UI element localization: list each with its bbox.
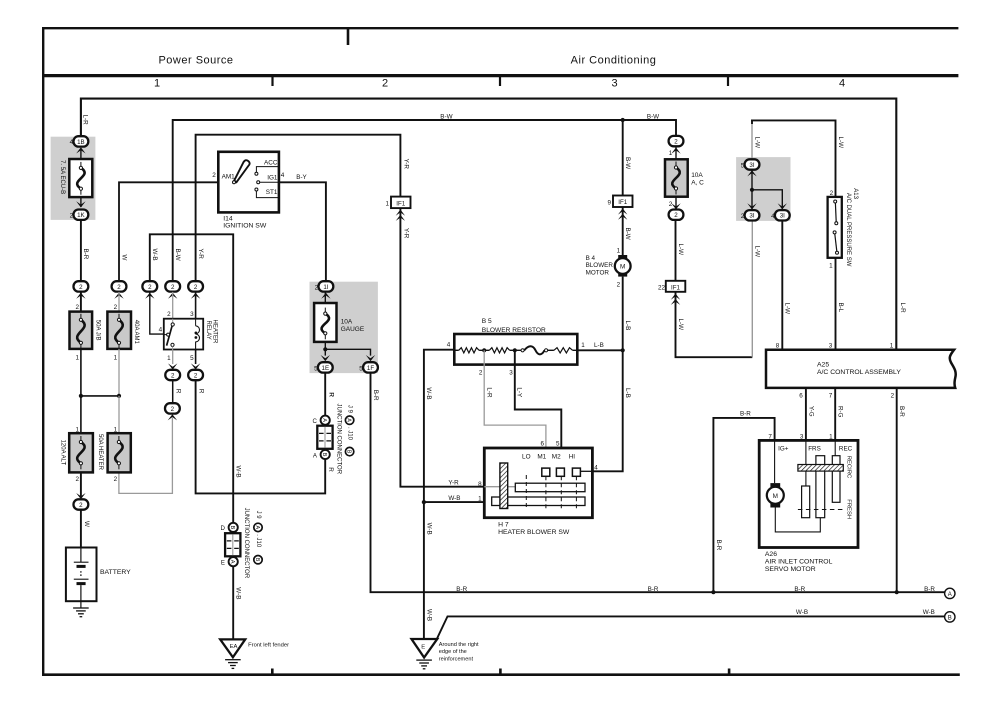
svg-text:5: 5 bbox=[741, 162, 745, 169]
connector 1B pin 4 bbox=[70, 136, 89, 146]
svg-text:2: 2 bbox=[194, 284, 198, 291]
svg-text:A: A bbox=[321, 418, 327, 422]
junction connector J9/J10 (D-E) bbox=[220, 523, 240, 567]
svg-text:2: 2 bbox=[171, 372, 175, 379]
connector 2 (Y-R) bbox=[188, 281, 203, 299]
fuse 50A J/B bbox=[70, 312, 101, 349]
svg-text:R: R bbox=[328, 392, 335, 397]
A26 air inlet control servo motor box bbox=[759, 440, 858, 547]
svg-text:3I: 3I bbox=[780, 213, 785, 220]
column number 4 bbox=[839, 78, 845, 90]
wire junction to fuse 120A ALT bbox=[75, 396, 80, 434]
label B-R bottom bus 2 bbox=[648, 586, 659, 593]
wire L-R from connector 1B across top to A25 pin 1 bbox=[81, 99, 906, 350]
svg-text:L-R: L-R bbox=[82, 115, 89, 126]
svg-text:22: 22 bbox=[658, 284, 666, 291]
wire W to battery bbox=[81, 510, 90, 548]
wire to fuse 50A J/B bbox=[75, 292, 80, 312]
heater blower switch labels LO M1 M2 HI bbox=[522, 454, 575, 461]
svg-text:1E: 1E bbox=[322, 365, 330, 372]
battery ground bbox=[73, 608, 89, 617]
label B5 BLOWER RESISTOR bbox=[482, 318, 546, 334]
A25 bottom pin labels bbox=[799, 392, 894, 399]
svg-text:2: 2 bbox=[674, 139, 678, 146]
battery bbox=[66, 548, 131, 609]
svg-text:4: 4 bbox=[70, 139, 74, 146]
wire R between connectors bbox=[173, 380, 182, 403]
wire L-W to connector IF1 pin 22 bbox=[676, 220, 685, 281]
blower motor B4 bbox=[586, 255, 631, 277]
svg-text:B-R: B-R bbox=[794, 586, 805, 593]
svg-text:2: 2 bbox=[171, 284, 175, 291]
wire W from ignition AM1 to connector 2 bbox=[119, 182, 218, 281]
pressure switch A13 contacts bbox=[833, 200, 838, 254]
wire fuse 50A J/B to junction bbox=[75, 349, 80, 396]
section title Air Conditioning bbox=[571, 55, 657, 67]
svg-text:B: B bbox=[229, 526, 235, 530]
ground E around reinforcement bbox=[412, 639, 480, 669]
wire R 1E to junction connector bbox=[325, 373, 334, 416]
svg-text:2: 2 bbox=[479, 370, 483, 377]
svg-text:3I: 3I bbox=[749, 162, 754, 169]
svg-text:3: 3 bbox=[509, 370, 513, 377]
wire B-R 1F to bottom bus bbox=[371, 373, 945, 592]
A26 dashed line bbox=[798, 509, 843, 511]
svg-text:2: 2 bbox=[79, 284, 83, 291]
svg-text:B-R: B-R bbox=[82, 249, 89, 260]
svg-text:IF1: IF1 bbox=[396, 200, 405, 207]
section title Power Source bbox=[158, 55, 233, 67]
label B-R bottom bus 4 bbox=[924, 586, 935, 593]
svg-text:A: A bbox=[313, 452, 318, 459]
wire Y-G A25 to A26 pin 3 bbox=[800, 388, 815, 441]
svg-text:IGNITION SW: IGNITION SW bbox=[223, 223, 267, 230]
svg-text:L-B: L-B bbox=[624, 321, 631, 331]
label B-R bottom bus 3 bbox=[794, 586, 805, 593]
wire L-W top branch bbox=[751, 120, 844, 197]
svg-text:E: E bbox=[421, 645, 425, 651]
wire connector 2 to fuse 40A AM1 bbox=[114, 292, 119, 312]
svg-text:A: A bbox=[254, 526, 260, 530]
label B-R bottom bus 1 bbox=[456, 586, 467, 593]
wire heater relay pin 5 to connector 2 bbox=[190, 350, 200, 370]
svg-text:5: 5 bbox=[190, 355, 194, 362]
svg-text:edge of the: edge of the bbox=[439, 649, 467, 655]
ignition terminal ST1 bbox=[255, 188, 279, 198]
connector 2 (R lower) bbox=[165, 403, 180, 420]
wire W-B bottom bus to output B bbox=[437, 609, 945, 638]
connector 1K pin 2 bbox=[70, 210, 89, 220]
wire W-B branch into heater blower switch pin 1 bbox=[424, 495, 492, 502]
A26 FRS slider bbox=[802, 486, 810, 518]
wire W-B to ground E bbox=[426, 609, 433, 621]
svg-text:B-Y: B-Y bbox=[296, 174, 307, 181]
svg-text:B-W: B-W bbox=[647, 114, 659, 121]
svg-text:Y-G: Y-G bbox=[807, 406, 814, 417]
ignition terminal AM1 pin 2 bbox=[212, 172, 235, 184]
label HEATER RELAY bbox=[205, 320, 218, 345]
svg-text:C: C bbox=[312, 418, 317, 425]
svg-text:2: 2 bbox=[194, 372, 198, 379]
arrow into 1K bbox=[76, 197, 85, 207]
svg-text:. J10: . J10 bbox=[255, 534, 261, 548]
A26 internal wires bbox=[775, 440, 836, 486]
wire W-B blower resistor pin 4 to ground E bbox=[422, 341, 455, 639]
svg-text:IG+: IG+ bbox=[778, 446, 789, 453]
svg-text:2: 2 bbox=[114, 476, 118, 483]
svg-text:JUNCTION CONNECTOR: JUNCTION CONNECTOR bbox=[335, 404, 341, 475]
svg-text:A: A bbox=[948, 592, 952, 598]
label 1 at A25 pin 1 bbox=[890, 342, 894, 349]
svg-text:4: 4 bbox=[594, 464, 598, 471]
svg-text:1I: 1I bbox=[323, 284, 328, 291]
svg-text:10A: 10A bbox=[341, 318, 353, 325]
svg-text:2: 2 bbox=[79, 502, 83, 509]
A26 middle slider bbox=[816, 456, 825, 518]
fuse 40A AM1 bbox=[107, 312, 139, 349]
gray backdrop 7.5A ECU-B bbox=[51, 137, 96, 220]
A26 REC slider bbox=[832, 456, 840, 503]
svg-text:6: 6 bbox=[799, 392, 803, 399]
junction bus between fuses bbox=[79, 394, 121, 398]
wire R to fuse 50A HEATER bbox=[119, 417, 172, 493]
svg-text:B-R: B-R bbox=[898, 406, 905, 417]
wire segment 1B to fuse bbox=[80, 150, 82, 159]
svg-text:50A HEATER: 50A HEATER bbox=[97, 434, 103, 471]
svg-text:HEATER BLOWER SW: HEATER BLOWER SW bbox=[498, 529, 570, 536]
heater blower switch dashed links bbox=[526, 475, 576, 509]
A26 servo motor M bbox=[767, 483, 784, 507]
wire Y-R IF1 to heater blower switch pin 8 bbox=[400, 208, 484, 488]
connector 2 (B-W) bbox=[165, 281, 180, 299]
svg-text:JUNCTION CONNECTOR: JUNCTION CONNECTOR bbox=[243, 508, 249, 579]
ground EA front left fender bbox=[220, 639, 289, 668]
A26 hatched bar bbox=[798, 465, 843, 472]
A26 terminal labels bbox=[778, 446, 853, 453]
connector 3I pin 5 bbox=[741, 159, 760, 176]
svg-text:5: 5 bbox=[314, 365, 318, 372]
heater blower switch bar 2 bbox=[492, 497, 585, 506]
connector 2 (relay pin5 R) bbox=[188, 370, 203, 380]
svg-text:IF1: IF1 bbox=[618, 199, 627, 206]
wire W-B connector 2 to junction connector J9/J10 bbox=[150, 234, 242, 522]
label A13 A/C DUAL PRESSURE SW bbox=[845, 188, 858, 266]
svg-text:2: 2 bbox=[75, 304, 79, 311]
label A26 AIR INLET CONTROL SERVO MOTOR bbox=[765, 551, 833, 573]
svg-text:B: B bbox=[254, 558, 260, 562]
svg-text:. J10: . J10 bbox=[347, 427, 353, 441]
svg-text:2: 2 bbox=[315, 284, 319, 291]
wire R relay to junction connector bbox=[196, 380, 326, 493]
wire L-R resistor pin 2 to heater blower switch pin 6 bbox=[479, 350, 546, 468]
svg-text:B 4: B 4 bbox=[586, 255, 596, 262]
svg-text:AM1: AM1 bbox=[222, 173, 236, 180]
svg-text:B-W: B-W bbox=[440, 114, 452, 121]
wire Y-R connector to heater relay pin 3 bbox=[190, 292, 196, 319]
wire 1I to fuse 10A GAUGE bbox=[324, 292, 326, 303]
svg-text:Air Conditioning: Air Conditioning bbox=[571, 55, 657, 67]
column number 2 bbox=[382, 78, 388, 90]
svg-text:A26: A26 bbox=[765, 551, 777, 558]
svg-text:B-R: B-R bbox=[740, 410, 751, 417]
label J 9(A) J10(B) (upper) bbox=[345, 405, 353, 456]
svg-text:R: R bbox=[327, 467, 334, 472]
svg-text:L-W: L-W bbox=[677, 244, 684, 256]
svg-text:A, C: A, C bbox=[691, 180, 704, 187]
svg-text:W-B: W-B bbox=[151, 249, 158, 261]
svg-text:4: 4 bbox=[281, 172, 285, 179]
svg-text:Around the right: Around the right bbox=[439, 642, 479, 648]
arrow into 1B bbox=[76, 147, 85, 153]
svg-text:1: 1 bbox=[478, 495, 482, 502]
svg-text:2: 2 bbox=[70, 213, 74, 220]
ignition switch key symbol bbox=[234, 160, 249, 182]
svg-text:L-W: L-W bbox=[837, 137, 844, 149]
heater blower switch H7 box bbox=[484, 448, 592, 518]
svg-text:R: R bbox=[174, 389, 181, 394]
connector 2 (W-B) bbox=[142, 281, 157, 299]
column number 1 bbox=[154, 78, 160, 90]
wire fuse 40A AM1 to junction bbox=[114, 349, 119, 396]
gray wire L-W up to connector 3I pin 2 bbox=[752, 221, 760, 358]
svg-text:W-B: W-B bbox=[796, 609, 808, 616]
svg-text:1: 1 bbox=[829, 262, 833, 269]
svg-text:Front left fender: Front left fender bbox=[248, 643, 289, 649]
fuse 7.5A ECU-B bbox=[59, 159, 92, 197]
wire W-B connector to heater relay pin 4 bbox=[150, 292, 164, 334]
A26 motor loop wire bbox=[775, 508, 820, 532]
svg-text:FRS: FRS bbox=[808, 446, 821, 453]
svg-text:L-R: L-R bbox=[899, 303, 906, 314]
svg-text:1K: 1K bbox=[77, 212, 85, 219]
svg-text:B-W: B-W bbox=[174, 249, 181, 261]
blower resistor B5 box bbox=[454, 334, 577, 365]
svg-text:SERVO MOTOR: SERVO MOTOR bbox=[765, 566, 816, 573]
connector 1E pin 5 bbox=[314, 362, 333, 372]
heater blower switch hatched wiper bbox=[500, 463, 508, 509]
svg-text:LO: LO bbox=[522, 454, 531, 461]
svg-text:W-B: W-B bbox=[448, 495, 460, 502]
svg-text:3: 3 bbox=[829, 342, 833, 349]
connector IF1 pin 1 bbox=[385, 197, 410, 221]
label H7 HEATER BLOWER SW bbox=[498, 522, 570, 537]
svg-text:L-W: L-W bbox=[677, 319, 684, 331]
svg-text:M2: M2 bbox=[552, 454, 561, 461]
svg-text:RECIRC: RECIRC bbox=[846, 456, 852, 479]
wire L-W 3I-4 to A25 pin 8 bbox=[776, 221, 791, 350]
svg-text:J 9: J 9 bbox=[347, 405, 353, 414]
label 2 under 120A ALT bbox=[75, 476, 79, 483]
heater relay switch contact bbox=[164, 319, 174, 350]
heater blower switch bar 1 bbox=[484, 483, 585, 492]
svg-text:M1: M1 bbox=[537, 454, 546, 461]
gray backdrop 10A GAUGE bbox=[310, 282, 378, 373]
svg-text:2: 2 bbox=[891, 392, 895, 399]
svg-text:L-W: L-W bbox=[753, 246, 760, 258]
svg-text:1B: 1B bbox=[77, 139, 85, 146]
connector 2 (W) bbox=[112, 281, 127, 299]
svg-text:2: 2 bbox=[114, 304, 118, 311]
connector IF1 pin 9 bbox=[607, 196, 632, 220]
svg-text:BLOWER: BLOWER bbox=[586, 262, 614, 269]
svg-text:B-W: B-W bbox=[624, 228, 631, 240]
wire Y-R to connector IF1 pin 1 bbox=[196, 135, 410, 281]
wire 120A ALT to connector 2 bbox=[76, 472, 85, 499]
wire B-L A13 to A25 pin 3 bbox=[829, 258, 844, 350]
svg-text:ACC: ACC bbox=[264, 159, 278, 166]
svg-text:W-B: W-B bbox=[425, 387, 432, 399]
svg-text:W: W bbox=[121, 255, 128, 261]
svg-text:W-B: W-B bbox=[426, 609, 433, 621]
heater blower switch contacts bbox=[542, 468, 581, 476]
svg-text:AIR INLET CONTROL: AIR INLET CONTROL bbox=[765, 559, 833, 566]
svg-text:1: 1 bbox=[114, 355, 118, 362]
wire junction to fuse 50A HEATER bbox=[114, 396, 119, 434]
svg-text:ST1: ST1 bbox=[266, 189, 278, 196]
wire fuse to connectors 1E 1F bbox=[321, 342, 376, 361]
svg-text:5: 5 bbox=[556, 440, 560, 447]
svg-text:A: A bbox=[346, 418, 352, 422]
svg-text:HEATERRELAY: HEATERRELAY bbox=[205, 320, 218, 345]
svg-text:2: 2 bbox=[382, 78, 388, 90]
svg-text:B-R: B-R bbox=[648, 586, 659, 593]
svg-text:HI: HI bbox=[569, 454, 576, 461]
svg-text:4: 4 bbox=[771, 213, 775, 220]
svg-text:L-W: L-W bbox=[754, 137, 761, 149]
svg-text:1: 1 bbox=[385, 201, 389, 208]
connector 3I pin 2 bbox=[741, 210, 760, 220]
svg-text:L-Y: L-Y bbox=[516, 387, 523, 398]
connector 2 (W battery) bbox=[74, 499, 89, 509]
svg-text:8: 8 bbox=[478, 481, 482, 488]
svg-text:50A J/B: 50A J/B bbox=[95, 320, 101, 341]
wire B-R A25 pin 2 to bottom bus bbox=[895, 388, 906, 594]
gray backdrop 3I connectors bbox=[736, 157, 790, 221]
svg-text:1: 1 bbox=[890, 342, 894, 349]
svg-text:R-G: R-G bbox=[837, 406, 844, 418]
connector 2 below fuse bbox=[669, 210, 684, 220]
svg-text:2: 2 bbox=[171, 406, 175, 413]
connector IF1 pin 22 bbox=[658, 281, 685, 305]
svg-text:B-R: B-R bbox=[924, 586, 935, 593]
svg-text:B: B bbox=[948, 615, 952, 621]
svg-text:L-R: L-R bbox=[486, 387, 493, 398]
svg-text:2: 2 bbox=[617, 281, 621, 288]
svg-text:8: 8 bbox=[776, 342, 780, 349]
svg-text:1: 1 bbox=[669, 150, 673, 157]
label 2 under 50A HEATER bbox=[114, 476, 118, 483]
svg-text:REC: REC bbox=[839, 446, 853, 453]
svg-text:40A AM1: 40A AM1 bbox=[133, 320, 139, 345]
svg-text:Y-R: Y-R bbox=[448, 479, 459, 486]
output circle A bbox=[945, 588, 955, 598]
svg-text:D: D bbox=[220, 525, 225, 532]
ignition terminal ACC bbox=[255, 159, 279, 175]
svg-text:A/C CONTROL ASSEMBLY: A/C CONTROL ASSEMBLY bbox=[817, 369, 901, 376]
svg-text:FRESH: FRESH bbox=[846, 499, 852, 519]
wire L-W IF1-22 to 3I harness bbox=[676, 292, 753, 357]
svg-text:B-R: B-R bbox=[456, 586, 467, 593]
connector 2 (relay pin1 R) bbox=[165, 370, 180, 380]
svg-text:2: 2 bbox=[167, 311, 171, 318]
svg-text:reinforcement: reinforcement bbox=[439, 657, 474, 663]
fuse 10A A C bbox=[665, 159, 704, 196]
svg-text:4: 4 bbox=[159, 327, 163, 334]
connector 3I pin 4 bbox=[771, 210, 790, 220]
gray wire segment above 3I-5 bbox=[751, 124, 753, 160]
svg-text:3: 3 bbox=[611, 78, 617, 90]
svg-text:H 7: H 7 bbox=[498, 522, 509, 529]
svg-text:7. 5A ECU-B: 7. 5A ECU-B bbox=[59, 160, 65, 194]
fuse 120A ALT bbox=[59, 433, 92, 472]
svg-text:R: R bbox=[197, 389, 204, 394]
svg-text:BLOWER RESISTOR: BLOWER RESISTOR bbox=[482, 327, 546, 334]
svg-text:3: 3 bbox=[190, 311, 194, 318]
wire R-G A25 to A26 pin 1 bbox=[829, 388, 844, 441]
svg-text:1: 1 bbox=[75, 355, 79, 362]
wire B-W across top bbox=[173, 114, 676, 281]
ignition switch I14 box bbox=[218, 152, 279, 213]
svg-text:1F: 1F bbox=[367, 365, 374, 372]
pressure switch A13 box bbox=[828, 190, 842, 258]
svg-text:1: 1 bbox=[167, 355, 171, 362]
svg-text:6: 6 bbox=[540, 440, 544, 447]
connector 1F pin 5 bbox=[359, 362, 378, 372]
heater blower switch pin 4 link bbox=[580, 470, 592, 472]
svg-text:3I: 3I bbox=[749, 213, 754, 220]
svg-text:J 9: J 9 bbox=[255, 511, 261, 520]
junction connector J9/J10 (C-A) bbox=[312, 393, 334, 473]
connector 1I pin 2 bbox=[315, 281, 334, 299]
svg-text:MOTOR: MOTOR bbox=[586, 269, 610, 276]
wire fuse to connector 2 bbox=[669, 197, 681, 210]
svg-text:GAUGE: GAUGE bbox=[341, 326, 365, 333]
svg-text:2: 2 bbox=[75, 476, 79, 483]
svg-text:I14: I14 bbox=[223, 215, 233, 222]
svg-text:EA: EA bbox=[230, 644, 238, 650]
svg-text:E: E bbox=[221, 560, 225, 567]
svg-text:2: 2 bbox=[117, 284, 121, 291]
svg-text:W-B: W-B bbox=[235, 466, 242, 478]
svg-text:B-R: B-R bbox=[715, 540, 722, 551]
svg-text:L-B: L-B bbox=[594, 342, 604, 349]
svg-text:W-B: W-B bbox=[923, 609, 935, 616]
svg-text:10A: 10A bbox=[691, 172, 703, 179]
svg-text:5: 5 bbox=[359, 365, 363, 372]
wire B-Y from IG1 to connector 1I bbox=[279, 174, 326, 281]
wire L-Y resistor pin 3 to heater blower switch pin 5 bbox=[509, 350, 561, 468]
svg-text:M: M bbox=[620, 264, 625, 271]
junction on B-W wire bbox=[621, 118, 625, 122]
svg-text:Power Source: Power Source bbox=[158, 55, 233, 67]
svg-text:W-B: W-B bbox=[235, 587, 242, 599]
wire B-W IF1 to blower motor bbox=[617, 207, 632, 255]
svg-text:4: 4 bbox=[447, 341, 451, 348]
blower resistor elements bbox=[454, 346, 577, 354]
svg-text:1: 1 bbox=[154, 78, 160, 90]
fuse 50A HEATER bbox=[97, 433, 131, 472]
svg-text:2: 2 bbox=[830, 190, 834, 197]
svg-text:W: W bbox=[83, 521, 90, 527]
svg-text:Y-R: Y-R bbox=[197, 249, 204, 260]
svg-text:2: 2 bbox=[148, 284, 152, 291]
connector 2 above 10A A C fuse bbox=[669, 136, 684, 154]
svg-text:A13A/C DUAL PRESSURE SW: A13A/C DUAL PRESSURE SW bbox=[845, 188, 858, 266]
svg-text:1: 1 bbox=[581, 342, 585, 349]
svg-text:B-W: B-W bbox=[624, 157, 631, 169]
svg-text:B-L: B-L bbox=[837, 303, 844, 313]
wire L-B blower motor to heater blower switch pin 4 bbox=[592, 277, 631, 472]
